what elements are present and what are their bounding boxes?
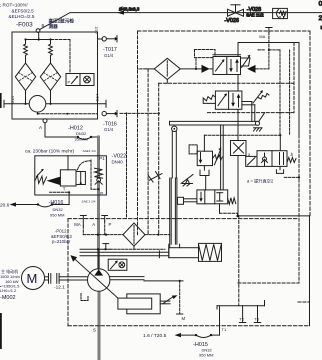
bypass valve circle	[29, 96, 46, 113]
pilot metering valve	[189, 135, 222, 170]
svg-text:1.6 / T20.5: 1.6 / T20.5	[143, 333, 167, 339]
svg-text:M: M	[182, 316, 186, 321]
svg-text:20.6: 20.6	[0, 202, 10, 208]
svg-text:-V026: -V026	[225, 18, 239, 24]
bypass spring branch 2	[50, 40, 52, 45]
damping orifice box	[231, 141, 247, 156]
internal header line	[26, 39, 52, 41]
svg-text:MA: MA	[74, 222, 81, 227]
measuring stub on gallery	[105, 244, 107, 250]
feedback rod	[171, 131, 173, 178]
svg-text:SAE 1 1/4: SAE 1 1/4	[82, 199, 96, 203]
tank manifold T1 T2 T3	[217, 301, 265, 336]
tank symbol upper	[200, 170, 209, 175]
svg-text:P1: P1	[99, 156, 105, 161]
svg-text:DN32: DN32	[76, 131, 87, 136]
svg-text:950 MM: 950 MM	[199, 353, 213, 358]
svg-text:测器: 测器	[49, 23, 59, 30]
relief unit labels	[25, 149, 126, 204]
scan edge artifacts left	[0, 93, 2, 108]
pilot dashed line inside relief	[91, 160, 98, 189]
svg-text:G1/2: G1/2	[95, 26, 99, 33]
valve2 feedback link	[242, 90, 269, 121]
coupling V028	[246, 7, 287, 19]
svg-text:A: A	[92, 222, 95, 227]
svg-text:2: 2	[319, 15, 322, 22]
flow arrow on top line	[117, 11, 124, 15]
pilot dashed risers	[137, 31, 139, 235]
suction line S (thick grey)	[98, 291, 101, 360]
hose H012	[45, 123, 99, 142]
lever orifice	[148, 172, 162, 183]
check to MA riser	[247, 65, 255, 73]
proportional valve 1	[213, 55, 241, 75]
feedback beam	[170, 113, 265, 132]
line to M port	[144, 280, 183, 282]
svg-text:-P012: -P012	[55, 228, 67, 233]
module dashed box	[208, 112, 295, 114]
valve V026 shutoff	[225, 5, 244, 24]
filter element 1	[15, 63, 35, 90]
servo piston box	[118, 294, 178, 314]
hose H015 to T20.5	[143, 333, 220, 358]
svg-text:S: S	[93, 328, 96, 333]
pump assembly dashed enclosure	[68, 218, 299, 220]
T016 sense dashed line	[37, 112, 39, 114]
svg-text:0: 0	[319, 1, 322, 8]
solenoid valve a	[246, 151, 296, 167]
tank return header	[238, 215, 310, 217]
svg-text:T1: T1	[222, 327, 227, 332]
servo control valve	[197, 190, 236, 204]
servo spring chamber	[80, 243, 222, 261]
svg-text:SAE1 1/4: SAE1 1/4	[83, 149, 96, 153]
outlet A flange	[43, 119, 47, 123]
clogging indicator	[66, 40, 94, 86]
test point T016	[102, 111, 118, 133]
test point T017	[102, 36, 118, 58]
solenoid pilot dashes	[269, 49, 280, 51]
main pump P012	[88, 269, 110, 291]
svg-text:G1/4: G1/4	[104, 127, 114, 132]
proportional valve 2	[203, 91, 242, 109]
pilot relief cartridge DB	[35, 156, 91, 192]
svg-text:-V022: -V022	[112, 153, 127, 159]
svg-text:-H016: -H016	[49, 200, 64, 206]
svg-text:&EFS0/2.5: &EFS0/2.5	[12, 9, 35, 14]
hose H016 to ref 20.6	[0, 200, 69, 217]
relief valve box	[35, 156, 107, 195]
svg-text:MA: MA	[259, 34, 265, 39]
svg-text:&EFS0/6.3: &EFS0/6.3	[51, 234, 72, 239]
pump unit port row MA A P	[74, 216, 111, 235]
svg-text:B: B	[42, 23, 45, 28]
outer assembly dashed enclosure	[138, 30, 311, 32]
svg-text:Ø48,3x6,3: Ø48,3x6,3	[119, 7, 140, 12]
pilot line to valve a	[204, 134, 280, 136]
svg-text:&ELHO=/2.5: &ELHO=/2.5	[9, 14, 35, 19]
P012 pump labels	[51, 228, 72, 244]
svg-text:P: P	[109, 222, 112, 227]
svg-text:-M002: -M002	[0, 295, 16, 301]
svg-text:LH0=/1.2: LH0=/1.2	[0, 288, 17, 293]
svg-text:; ROT=100%": ; ROT=100%"	[0, 2, 29, 7]
svg-text:DN40: DN40	[112, 160, 124, 165]
filter F003 enclosure box	[12, 32, 98, 119]
svg-text:-F003: -F003	[16, 21, 33, 28]
filter element 2	[40, 63, 60, 90]
wire: main top pipe line B	[38, 13, 322, 31]
pump top gallery	[80, 248, 110, 250]
svg-text:T3: T3	[254, 316, 259, 321]
drain riser right	[298, 135, 300, 283]
svg-text:P: P	[68, 80, 71, 85]
main pressure line A (thick grey)	[97, 137, 100, 269]
bypass spring branch 1	[25, 40, 27, 45]
svg-text:350MM: 350MM	[75, 137, 88, 142]
svg-text:G1/4: G1/4	[104, 53, 114, 58]
variable displacement arrow	[74, 258, 120, 300]
right test rail	[97, 33, 99, 114]
filter unit F003 labels	[0, 2, 74, 29]
node: filter B inlet circle	[36, 29, 40, 33]
drain T to hose H016	[50, 191, 70, 193]
valve a drain	[279, 166, 281, 169]
check valve V022 on main line	[95, 168, 103, 184]
svg-text:a = 提升真空2: a = 提升真空2	[247, 178, 274, 185]
pilot filter	[154, 58, 180, 79]
svg-text:-12.1: -12.1	[54, 285, 65, 291]
MA measuring riser	[266, 27, 272, 29]
sense filter F004	[123, 223, 145, 246]
pilot supply line down through valves	[239, 43, 299, 136]
pressure switch on pump	[108, 259, 127, 270]
case drain stub	[81, 294, 88, 301]
svg-text:DN32: DN32	[53, 207, 64, 212]
electric motor M002	[22, 267, 45, 290]
svg-text:T2: T2	[239, 316, 244, 321]
pipe elbow flange	[178, 197, 197, 204]
pump thru-shaft	[110, 276, 144, 278]
flow check into valve	[202, 65, 210, 73]
valve stem to beam	[220, 125, 222, 190]
svg-text:T: T	[63, 187, 66, 192]
P sense dashed gallery	[83, 234, 123, 236]
svg-text:950 MM: 950 MM	[50, 213, 64, 218]
vertical pipe	[170, 178, 177, 248]
prop solenoid 1	[241, 55, 251, 68]
svg-text:M: M	[27, 271, 38, 286]
shaft coupling	[45, 274, 88, 284]
M port stub	[179, 281, 181, 314]
bottom gallery line with ports	[4, 103, 106, 105]
svg-text:ca. 230bar (10% mehr): ca. 230bar (10% mehr)	[25, 149, 74, 155]
svg-text:SAE 11/2: SAE 11/2	[246, 12, 264, 17]
lever with fulcrum	[181, 175, 193, 187]
svg-text:G1/4: G1/4	[11, 96, 15, 104]
